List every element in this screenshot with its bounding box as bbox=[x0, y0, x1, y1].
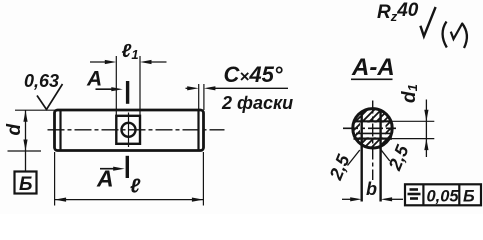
svg-text:ℓ: ℓ bbox=[130, 176, 141, 198]
d dimension line bbox=[25, 110, 27, 171]
svg-text:ℓ1: ℓ1 bbox=[122, 41, 139, 62]
roughness tick 0,63 bbox=[37, 84, 63, 110]
svg-text:A: A bbox=[86, 68, 102, 91]
svg-text:2,5: 2,5 bbox=[384, 141, 413, 174]
d1 dimension bbox=[425, 100, 427, 158]
svg-text:A-A: A-A bbox=[351, 54, 395, 81]
clear hole band bbox=[360, 123, 386, 138]
section horizontal centerline bbox=[343, 127, 396, 129]
C x45 extension lines bbox=[198, 84, 200, 110]
svg-text:d: d bbox=[4, 124, 25, 136]
svg-text:b: b bbox=[366, 179, 377, 199]
hole circle bbox=[122, 123, 136, 137]
d extension line top bbox=[15, 109, 56, 111]
svg-text:d1: d1 bbox=[399, 84, 420, 103]
section arrow top bbox=[96, 88, 116, 90]
section circle outline bbox=[353, 109, 392, 148]
hole vertical centerline bbox=[128, 113, 130, 148]
l1 dimension line bbox=[90, 61, 108, 63]
svg-text:A: A bbox=[96, 166, 114, 192]
section cut line top bbox=[126, 81, 129, 104]
C dimension arrows bbox=[186, 87, 192, 89]
tolerance frame bbox=[405, 184, 481, 205]
section cut line bottom bbox=[126, 156, 129, 178]
svg-text:C×45°: C×45° bbox=[224, 62, 283, 87]
left chamfer line bbox=[59, 111, 61, 151]
svg-text:Б: Б bbox=[19, 174, 32, 195]
pin body rectangle bbox=[55, 110, 204, 151]
small check mark bbox=[451, 23, 463, 39]
slot left line bbox=[361, 111, 363, 202]
centerline bbox=[48, 129, 225, 131]
b dimension bbox=[342, 198, 354, 200]
svg-text:2 фаски: 2 фаски bbox=[221, 93, 293, 113]
big check mark bbox=[420, 7, 435, 36]
svg-text:Б: Б bbox=[463, 188, 475, 206]
svg-text:2,5: 2,5 bbox=[325, 151, 354, 184]
datum box Б bbox=[15, 172, 37, 194]
hole edge bottom bbox=[354, 138, 393, 140]
section circle hatch bbox=[348, 73, 398, 179]
l dimension line bbox=[55, 199, 204, 201]
right chamfer line bbox=[197, 111, 199, 151]
svg-text:0,05: 0,05 bbox=[427, 188, 460, 206]
symmetry symbol bbox=[410, 188, 419, 191]
d extension line bottom bbox=[8, 150, 42, 152]
hole edge top bbox=[354, 120, 393, 122]
parenthesis right bbox=[462, 23, 467, 48]
svg-text:0,63: 0,63 bbox=[24, 71, 59, 91]
l1 extension lines bbox=[115, 56, 117, 116]
l extension lines bbox=[54, 152, 56, 206]
leader 2,5 right bbox=[379, 148, 389, 161]
section arrow bottom bbox=[100, 168, 117, 170]
leader 2,5 left bbox=[348, 150, 360, 166]
svg-text:Rz40: Rz40 bbox=[377, 0, 419, 24]
section vertical centerline bbox=[372, 101, 374, 181]
parenthesis left bbox=[443, 22, 447, 48]
hole band extra line bbox=[356, 132, 390, 134]
slot right line bbox=[379, 110, 381, 202]
keyway box bbox=[116, 116, 140, 144]
